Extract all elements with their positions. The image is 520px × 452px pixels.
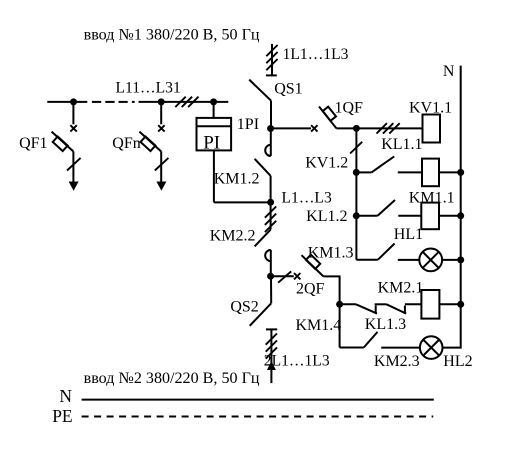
breaker QF1 with feeder arrow — [52, 102, 81, 191]
N bus vertical — [443, 66, 461, 348]
svg-text:1PI: 1PI — [237, 116, 259, 133]
junction 1QF output / rail A — [353, 125, 360, 132]
svg-text:PI: PI — [203, 132, 220, 153]
breaker 2QF — [294, 255, 340, 348]
svg-text:2QF: 2QF — [296, 281, 325, 298]
svg-text:KV1.2: KV1.2 — [305, 155, 348, 172]
svg-text:1QF: 1QF — [335, 100, 364, 117]
contactor coil KM1.1 — [421, 203, 439, 230]
junction bus / QF1 — [70, 98, 77, 105]
wire node to 1QF contact — [271, 127, 311, 129]
wire KM2.3 to HL2 — [381, 347, 420, 349]
wire QS1 to node — [270, 101, 272, 129]
contactor contact KM2.2 — [255, 230, 271, 277]
svg-text:QS2: QS2 — [230, 298, 258, 315]
contact KM1.3 — [378, 244, 395, 260]
wire feeder input 2 vertical with up arrow — [267, 329, 276, 383]
breaker QFn with feeder arrow — [139, 102, 168, 191]
svg-text:L11…L31: L11…L31 — [116, 80, 181, 97]
junction on N bus KM2.1 rung — [457, 301, 464, 308]
wire rung 2 coil to N — [439, 171, 461, 173]
svg-text:1L1…1L3: 1L1…1L3 — [283, 46, 349, 63]
svg-text:QS1: QS1 — [274, 81, 302, 98]
contact KL1.1 (3-slash mark) — [377, 123, 400, 133]
svg-text:KM2.3: KM2.3 — [374, 353, 420, 370]
wire rung 3 coil to N — [439, 215, 461, 217]
contact KL1.3 (NC) — [387, 304, 422, 313]
svg-text:QF1: QF1 — [19, 135, 47, 152]
wire junction to 2QF contact — [271, 275, 294, 277]
svg-text:PE: PE — [52, 406, 72, 426]
wire rung 1 to KV1.1 coil — [356, 127, 422, 129]
single-conductor slash before 2QF — [278, 271, 291, 282]
relay coil KV1.1 — [423, 115, 441, 143]
junction QS2/2QF — [267, 273, 274, 280]
junction rung 3 — [353, 212, 360, 219]
electricity meter 1PI — [197, 98, 271, 202]
N line (bottom) — [82, 399, 434, 401]
wire rung 3 to coil — [398, 215, 421, 217]
node L1…L3 junction — [267, 199, 274, 206]
svg-text:2L1…1L3: 2L1…1L3 — [264, 352, 330, 369]
3-phase slash marks on feeder 2 — [266, 333, 277, 358]
single-conductor slash on rail A — [350, 142, 362, 154]
relay coil (unlabeled, rung 2) — [422, 159, 439, 187]
junction on N bus rung 3 — [457, 212, 464, 219]
svg-text:N: N — [59, 386, 72, 406]
contactor contact KM1.2 — [255, 129, 271, 203]
svg-text:KL1.2: KL1.2 — [306, 208, 347, 225]
junction rung 2 — [353, 169, 360, 176]
lamp HL1 — [419, 249, 442, 272]
junction bus / QFn — [158, 98, 165, 105]
svg-text:KL1.1: KL1.1 — [381, 136, 422, 153]
disconnector QS1 — [249, 75, 277, 100]
svg-text:KV1.1: KV1.1 — [409, 100, 452, 117]
svg-text:KM1.1: KM1.1 — [409, 190, 455, 207]
main bus L11…L31 — [47, 101, 228, 103]
svg-text:KM2.1: KM2.1 — [378, 280, 424, 297]
wire rail A vertical — [355, 128, 357, 259]
wire KM1.3 to HL1 — [398, 259, 419, 261]
disconnector QS2 — [250, 276, 278, 329]
wire HL1 to N — [442, 259, 461, 261]
wire KM2.1 coil to N — [439, 303, 460, 305]
3-phase slash marks on feeder 1 — [266, 45, 277, 70]
wire rung 2 to coil — [398, 171, 422, 173]
contactor coil KM2.1 — [421, 290, 439, 319]
breaker 1QF — [311, 107, 356, 132]
junction on N bus rung 2 — [457, 169, 464, 176]
contact KV1.2 — [372, 156, 395, 172]
contact KL1.2 — [378, 200, 396, 216]
3-phase slashes on bus — [175, 97, 198, 107]
wire feeder input 1 vertical — [271, 44, 273, 76]
svg-text:ввод №2 380/220 В, 50 Гц: ввод №2 380/220 В, 50 Гц — [84, 370, 260, 387]
svg-text:ввод №1 380/220 В, 50 Гц: ввод №1 380/220 В, 50 Гц — [84, 27, 260, 44]
lamp HL2 — [420, 336, 443, 359]
svg-text:KM2.2: KM2.2 — [210, 228, 256, 245]
contact KM2.3 — [340, 347, 364, 349]
wire node to KM2.2 with 3-phase slashes — [270, 202, 272, 229]
svg-text:QFn: QFn — [112, 135, 140, 152]
svg-text:KL1.3: KL1.3 — [365, 316, 406, 333]
svg-text:KM1.2: KM1.2 — [214, 171, 260, 188]
wire KM2.1 rung start — [340, 303, 356, 305]
junction on N bus HL1 rung — [457, 256, 464, 263]
wire rung 3 start — [356, 215, 377, 217]
wire rung 2 start — [356, 171, 371, 173]
svg-text:L1…L3: L1…L3 — [282, 189, 332, 206]
svg-text:HL1: HL1 — [394, 226, 423, 243]
svg-text:HL2: HL2 — [443, 353, 472, 370]
svg-text:N: N — [443, 63, 455, 80]
junction rail B / KM2.1 rung — [336, 301, 343, 308]
PE line (dashed) — [82, 416, 434, 418]
junction QS1/1QF/KM1.2 — [267, 125, 274, 132]
contact KM1.4 (NC) — [356, 304, 387, 313]
wire rail A corner to HL1 rung — [356, 259, 378, 261]
svg-text:KM1.4: KM1.4 — [296, 317, 342, 334]
